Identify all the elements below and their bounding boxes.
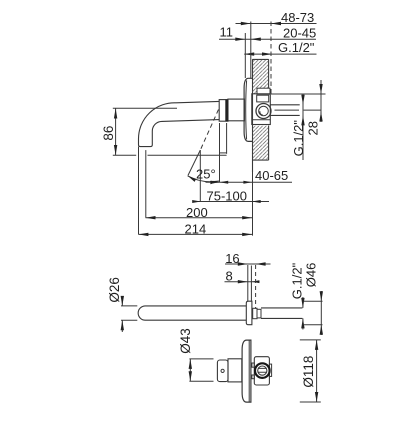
svg-text:200: 200 xyxy=(186,205,208,220)
housing tab lower xyxy=(252,375,254,379)
plan G12 dim vertical xyxy=(302,297,304,330)
cartridge circle outer xyxy=(255,363,270,378)
svg-text:20-45: 20-45 xyxy=(283,26,316,41)
G12 side arrow down xyxy=(301,95,304,105)
16 right arrow xyxy=(256,262,266,265)
40-65 right arrow xyxy=(243,181,252,184)
valve body inner bottom line xyxy=(252,119,270,121)
angle arc xyxy=(188,176,219,182)
housing tab upper xyxy=(252,363,254,367)
plan G12 arrow down xyxy=(301,298,304,308)
wall upper hatch xyxy=(253,60,269,94)
200 right arrow xyxy=(242,216,252,219)
svg-text:G.1/2": G.1/2" xyxy=(278,40,315,55)
dim 75-100 line xyxy=(193,201,270,203)
pipe right top xyxy=(270,104,299,106)
G12 top right arrow xyxy=(262,52,272,55)
notch line xyxy=(219,152,226,154)
dim 86 arrow up xyxy=(114,108,117,118)
48-73 left arrow xyxy=(241,22,251,25)
knob cap dot xyxy=(221,369,224,372)
Ø43 arrow up xyxy=(189,359,192,369)
200 left arrow xyxy=(146,216,156,219)
svg-text:28: 28 xyxy=(306,121,321,135)
ext vertical from ring left xyxy=(219,123,221,182)
Ø118 ext bottom xyxy=(300,401,321,403)
Ø46 arrow down xyxy=(320,291,323,301)
svg-text:Ø26: Ø26 xyxy=(107,277,122,303)
wall face ext down xyxy=(252,172,254,236)
G12 top label line xyxy=(244,53,316,55)
ext vertical wall face top xyxy=(250,22,252,79)
svg-text:Ø46: Ø46 xyxy=(303,263,318,288)
ext vertical from ring right xyxy=(226,123,228,154)
ext vertical 8 right xyxy=(250,266,252,302)
plan G12 arrow up xyxy=(301,318,304,328)
28 arrow up xyxy=(319,112,322,122)
Ø118 dim vertical xyxy=(316,340,318,402)
svg-text:25°: 25° xyxy=(196,167,216,182)
valve outlet circle outer xyxy=(256,104,271,119)
75-100 left arrow xyxy=(192,200,201,203)
arc arrow right xyxy=(210,181,219,184)
escutcheon inner edge line xyxy=(245,80,248,139)
wall face vertical line xyxy=(252,59,254,172)
ext vertical 16 right dashed xyxy=(255,265,257,309)
dim 86 bottom extension line xyxy=(113,154,227,156)
dim 16 line xyxy=(225,263,271,265)
75-100 right arrow xyxy=(252,200,261,203)
Ø26 arrow up xyxy=(121,320,124,330)
40-65 left arrow xyxy=(211,181,228,184)
plan Ø46 ext top xyxy=(304,300,323,302)
dim 214 line xyxy=(138,233,252,235)
pipe right bottom xyxy=(270,114,299,116)
svg-text:G.1/2": G.1/2" xyxy=(290,262,305,299)
ext vertical escutcheon front xyxy=(244,33,246,78)
spout ring dark band xyxy=(225,100,228,122)
214 right arrow xyxy=(242,233,252,236)
svg-text:86: 86 xyxy=(101,126,116,141)
Ø118 ext top xyxy=(300,339,321,341)
20-45 left arrow xyxy=(235,38,245,41)
top dims: 48-73 line xyxy=(236,23,317,25)
valve body inner top rect xyxy=(257,95,269,102)
valve body outline xyxy=(252,94,270,125)
svg-text:Ø118: Ø118 xyxy=(301,356,316,388)
escutcheon plate Ø118 (side view) xyxy=(244,78,252,141)
vertical ray from vertex xyxy=(199,150,201,202)
svg-text:75-100: 75-100 xyxy=(207,188,247,203)
svg-text:8: 8 xyxy=(226,269,233,284)
svg-text:16: 16 xyxy=(225,251,239,266)
214 left arrow xyxy=(138,233,148,236)
spout flange cylinder xyxy=(228,99,245,121)
wall lower hatch xyxy=(253,126,269,160)
arc arrow left xyxy=(188,176,197,182)
pipe axis dash xyxy=(275,109,321,111)
svg-text:214: 214 xyxy=(185,221,207,236)
knob base xyxy=(228,359,242,382)
valve outlet circle inner xyxy=(259,106,269,116)
plan spout tube xyxy=(138,306,246,320)
8 right arrow xyxy=(251,280,259,283)
plan Ø46 dim vertical xyxy=(320,291,322,335)
cartridge housing xyxy=(254,357,269,385)
Ø46 arrow up xyxy=(320,325,323,335)
Ø43 ext top xyxy=(189,358,213,360)
wall lower section bottom edge xyxy=(253,159,269,161)
dim G12 side vertical xyxy=(302,94,304,160)
cartridge slot lines xyxy=(258,368,266,372)
spout tube outer profile xyxy=(139,101,220,146)
wall upper section top edge xyxy=(253,58,269,60)
cartridge circle inner xyxy=(258,366,267,375)
dim 8 line xyxy=(225,281,260,283)
svg-text:G.1/2": G.1/2" xyxy=(291,120,306,157)
Ø43 ext bottom xyxy=(189,380,213,382)
dim 40-65 line xyxy=(206,181,293,183)
plan Ø46 ext bottom xyxy=(304,324,323,326)
dim 86 arrow down xyxy=(114,145,117,155)
Ø118 plate inner line xyxy=(248,341,250,402)
plan collar piece 2 xyxy=(257,309,261,318)
wall upper section back edge xyxy=(268,59,270,94)
Ø118 arrow down xyxy=(315,392,318,402)
ext vertical from outlet left xyxy=(138,147,140,235)
ext vertical outlet axis xyxy=(145,150,147,218)
wall lower section back edge xyxy=(268,126,270,161)
spout ring xyxy=(219,100,228,122)
Ø118 plate plan xyxy=(242,340,251,402)
G12 side arrow up xyxy=(301,115,304,125)
spray dashed line 25deg xyxy=(200,110,218,151)
svg-text:48-73: 48-73 xyxy=(281,10,314,25)
dim 86 top extension line xyxy=(113,107,177,109)
16 left arrow xyxy=(238,262,248,265)
Ø43 dim vertical xyxy=(189,359,191,381)
knob cap xyxy=(217,360,228,382)
dims 11 / 20-45 line xyxy=(219,38,316,40)
dim 28 vertical xyxy=(320,80,322,122)
valve inlet nipple xyxy=(257,88,270,94)
svg-text:40-65: 40-65 xyxy=(255,168,288,183)
48-73 right arrow xyxy=(271,22,281,25)
28 arrow down xyxy=(319,84,322,94)
plan Ø26 dim vertical xyxy=(121,296,123,332)
housing step right xyxy=(269,364,271,376)
Ø26 arrow down xyxy=(121,296,124,306)
plan pipe xyxy=(261,308,302,319)
plan flange plate Ø46 xyxy=(246,301,252,325)
Ø26 ext lines xyxy=(121,306,137,320)
plan collar piece 1 xyxy=(253,308,257,318)
spray solid ray xyxy=(188,150,200,175)
ext vertical body rear dashed xyxy=(270,22,272,94)
body top ext right xyxy=(271,93,326,95)
dim 200 line xyxy=(146,217,253,219)
Ø118 arrow up xyxy=(315,340,318,350)
Ø43 arrow down xyxy=(189,371,192,381)
svg-text:11: 11 xyxy=(220,25,234,40)
valve circle small arc detail xyxy=(260,111,263,115)
8 left arrow xyxy=(238,280,248,283)
20-45 right arrow xyxy=(251,38,261,41)
ext vertical 16/8 shared xyxy=(247,265,249,301)
dim 86 line xyxy=(115,108,117,155)
G12 top left arrow xyxy=(244,52,254,55)
svg-text:Ø43: Ø43 xyxy=(178,328,193,354)
